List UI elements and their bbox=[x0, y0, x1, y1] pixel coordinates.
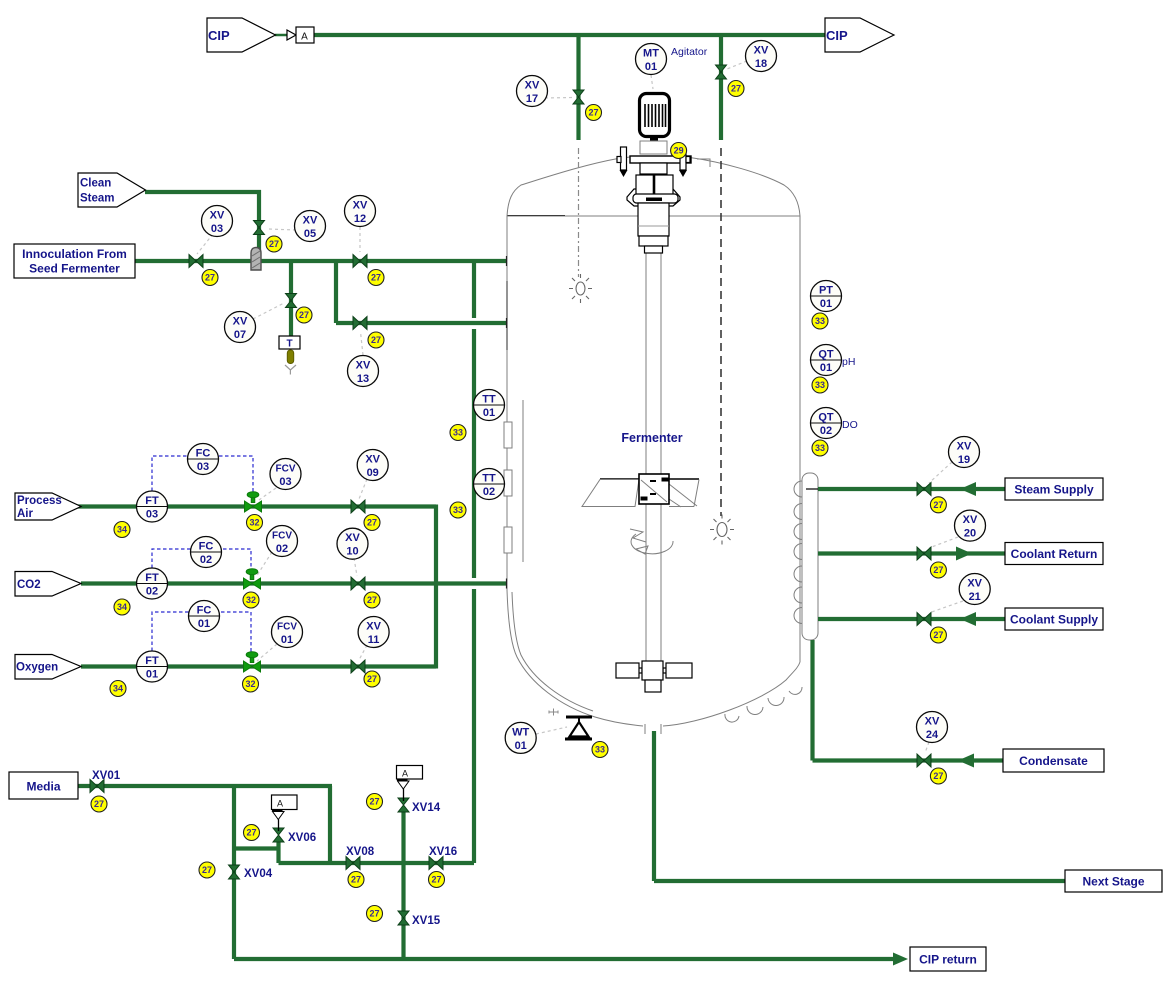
svg-text:CIP: CIP bbox=[208, 28, 230, 43]
svg-text:Oxygen: Oxygen bbox=[16, 662, 58, 674]
svg-text:FC: FC bbox=[196, 448, 211, 460]
svg-text:CO2: CO2 bbox=[17, 579, 41, 591]
svg-text:CIP: CIP bbox=[826, 28, 848, 43]
svg-text:FT: FT bbox=[145, 655, 159, 667]
svg-text:QT: QT bbox=[818, 412, 834, 424]
svg-text:10: 10 bbox=[346, 546, 358, 558]
svg-text:12: 12 bbox=[354, 213, 366, 225]
svg-text:T: T bbox=[286, 339, 292, 350]
svg-text:XV15: XV15 bbox=[412, 915, 441, 927]
svg-text:Media: Media bbox=[26, 780, 60, 794]
svg-text:Agitator: Agitator bbox=[671, 46, 708, 58]
svg-text:27: 27 bbox=[299, 310, 309, 320]
svg-text:33: 33 bbox=[595, 745, 605, 755]
svg-text:FT: FT bbox=[145, 572, 159, 584]
svg-text:QT: QT bbox=[818, 349, 834, 361]
svg-text:Clean: Clean bbox=[80, 178, 111, 190]
svg-text:Coolant Supply: Coolant Supply bbox=[1010, 613, 1098, 627]
svg-text:A: A bbox=[277, 799, 283, 809]
svg-text:33: 33 bbox=[815, 380, 825, 390]
svg-text:XV: XV bbox=[957, 441, 972, 453]
svg-text:01: 01 bbox=[645, 61, 657, 73]
svg-text:27: 27 bbox=[933, 771, 943, 781]
svg-text:XV: XV bbox=[967, 578, 982, 590]
svg-text:27: 27 bbox=[369, 909, 379, 919]
svg-text:27: 27 bbox=[731, 84, 741, 94]
svg-text:XV: XV bbox=[353, 200, 368, 212]
svg-text:27: 27 bbox=[367, 595, 377, 605]
svg-text:07: 07 bbox=[234, 329, 246, 341]
svg-text:29: 29 bbox=[674, 146, 684, 156]
svg-text:18: 18 bbox=[755, 58, 767, 70]
svg-text:Process: Process bbox=[17, 495, 62, 507]
svg-text:05: 05 bbox=[304, 228, 316, 240]
svg-text:27: 27 bbox=[431, 875, 441, 885]
svg-text:DO: DO bbox=[842, 419, 858, 431]
svg-text:FCV: FCV bbox=[276, 464, 296, 475]
svg-text:PT: PT bbox=[819, 285, 833, 297]
svg-text:27: 27 bbox=[371, 335, 381, 345]
svg-text:27: 27 bbox=[367, 518, 377, 528]
svg-text:Innoculation From: Innoculation From bbox=[22, 247, 127, 261]
svg-text:27: 27 bbox=[367, 674, 377, 684]
svg-text:FC: FC bbox=[197, 605, 212, 617]
svg-text:pH: pH bbox=[842, 356, 855, 368]
svg-text:XV14: XV14 bbox=[412, 802, 441, 814]
svg-text:34: 34 bbox=[117, 525, 127, 535]
svg-text:27: 27 bbox=[588, 108, 598, 118]
svg-text:CIP return: CIP return bbox=[919, 953, 977, 967]
svg-text:XV08: XV08 bbox=[346, 846, 375, 858]
svg-text:FT: FT bbox=[145, 495, 159, 507]
svg-text:27: 27 bbox=[351, 875, 361, 885]
svg-text:33: 33 bbox=[815, 443, 825, 453]
svg-text:03: 03 bbox=[197, 461, 209, 473]
svg-text:02: 02 bbox=[146, 586, 158, 598]
svg-text:19: 19 bbox=[958, 454, 970, 466]
svg-text:03: 03 bbox=[146, 509, 158, 521]
svg-text:XV: XV bbox=[963, 514, 978, 526]
svg-text:MT: MT bbox=[643, 48, 659, 60]
svg-text:Coolant Return: Coolant Return bbox=[1011, 547, 1098, 561]
svg-text:27: 27 bbox=[369, 797, 379, 807]
svg-text:WT: WT bbox=[512, 726, 529, 738]
svg-text:XV: XV bbox=[303, 215, 318, 227]
svg-text:09: 09 bbox=[367, 467, 379, 479]
svg-text:27: 27 bbox=[205, 273, 215, 283]
svg-text:A: A bbox=[402, 769, 408, 779]
svg-text:TT: TT bbox=[482, 394, 496, 406]
svg-text:27: 27 bbox=[933, 500, 943, 510]
svg-text:33: 33 bbox=[453, 505, 463, 515]
svg-text:XV: XV bbox=[525, 80, 540, 92]
svg-text:XV01: XV01 bbox=[92, 770, 121, 782]
svg-text:XV: XV bbox=[365, 454, 380, 466]
svg-text:01: 01 bbox=[483, 407, 495, 419]
svg-text:01: 01 bbox=[198, 618, 210, 630]
svg-text:27: 27 bbox=[246, 828, 256, 838]
svg-text:21: 21 bbox=[969, 591, 981, 603]
svg-text:32: 32 bbox=[246, 595, 256, 605]
svg-text:32: 32 bbox=[249, 518, 259, 528]
svg-text:20: 20 bbox=[964, 528, 976, 540]
svg-text:01: 01 bbox=[820, 298, 832, 310]
svg-text:Air: Air bbox=[17, 508, 34, 520]
svg-text:XV: XV bbox=[233, 316, 248, 328]
svg-text:24: 24 bbox=[926, 729, 939, 741]
svg-text:FCV: FCV bbox=[272, 531, 292, 542]
svg-text:XV: XV bbox=[345, 532, 360, 544]
svg-text:27: 27 bbox=[269, 239, 279, 249]
svg-text:A: A bbox=[301, 32, 308, 43]
svg-text:Steam: Steam bbox=[80, 193, 115, 205]
svg-text:34: 34 bbox=[113, 684, 123, 694]
svg-text:XV06: XV06 bbox=[288, 832, 316, 844]
svg-text:TT: TT bbox=[482, 473, 496, 485]
svg-text:33: 33 bbox=[453, 428, 463, 438]
svg-text:01: 01 bbox=[515, 740, 527, 752]
svg-text:03: 03 bbox=[211, 223, 223, 235]
svg-text:XV04: XV04 bbox=[244, 868, 273, 880]
svg-text:02: 02 bbox=[483, 486, 495, 498]
svg-text:Steam Supply: Steam Supply bbox=[1014, 483, 1094, 497]
svg-text:02: 02 bbox=[276, 543, 288, 555]
svg-text:Next Stage: Next Stage bbox=[1082, 875, 1144, 889]
svg-text:02: 02 bbox=[820, 425, 832, 437]
svg-text:XV: XV bbox=[925, 716, 940, 728]
svg-text:27: 27 bbox=[202, 865, 212, 875]
svg-text:XV: XV bbox=[754, 45, 769, 57]
svg-text:Fermenter: Fermenter bbox=[621, 431, 682, 445]
svg-text:Seed Fermenter: Seed Fermenter bbox=[29, 262, 120, 276]
svg-text:13: 13 bbox=[357, 373, 369, 385]
svg-text:FCV: FCV bbox=[277, 622, 297, 633]
svg-text:Condensate: Condensate bbox=[1019, 754, 1088, 768]
svg-text:XV: XV bbox=[356, 360, 371, 372]
svg-text:11: 11 bbox=[368, 634, 380, 646]
svg-text:27: 27 bbox=[371, 273, 381, 283]
svg-text:01: 01 bbox=[820, 362, 832, 374]
svg-text:27: 27 bbox=[94, 799, 104, 809]
svg-text:XV: XV bbox=[366, 621, 381, 633]
svg-text:XV: XV bbox=[210, 210, 225, 222]
svg-text:01: 01 bbox=[146, 669, 158, 681]
svg-text:33: 33 bbox=[815, 316, 825, 326]
svg-text:32: 32 bbox=[245, 679, 255, 689]
svg-text:03: 03 bbox=[279, 476, 291, 488]
svg-text:FC: FC bbox=[199, 541, 214, 553]
svg-text:02: 02 bbox=[200, 554, 212, 566]
svg-text:01: 01 bbox=[281, 634, 293, 646]
svg-text:17: 17 bbox=[526, 93, 538, 105]
svg-text:27: 27 bbox=[933, 630, 943, 640]
svg-text:27: 27 bbox=[933, 565, 943, 575]
svg-text:XV16: XV16 bbox=[429, 846, 457, 858]
svg-text:34: 34 bbox=[117, 602, 127, 612]
